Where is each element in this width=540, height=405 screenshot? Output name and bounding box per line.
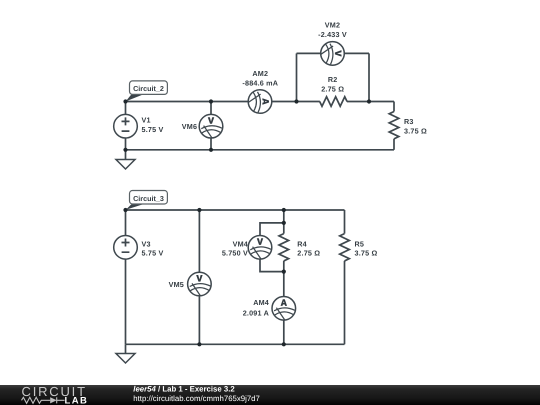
voltage source V1 (114, 114, 164, 138)
junction at VM5 bottom (197, 342, 201, 346)
svg-text:5.750 V: 5.750 V (222, 249, 248, 258)
junction at VM6 top (209, 99, 213, 103)
resistor R2 (320, 75, 347, 106)
junction at R2 right (367, 99, 371, 103)
svg-text:AM2: AM2 (252, 69, 268, 78)
wire: bottom rail of Circuit_3 (126, 343, 345, 345)
wire: bottom rail of Circuit_2 (126, 149, 395, 151)
wire: VM2 left lead up (296, 53, 298, 101)
svg-text:R4: R4 (297, 240, 307, 249)
wire: VM4 parallel loop (260, 223, 284, 272)
svg-text:R5: R5 (355, 240, 365, 249)
wire: top rail of Circuit_2 (right of R2) (347, 101, 394, 103)
wire: R5 bottom lead (344, 261, 346, 344)
wire: top rail of Circuit_2 (left of R2) (126, 101, 320, 103)
junction at V1 top node (123, 99, 127, 103)
svg-text:5.75 V: 5.75 V (142, 125, 164, 134)
svg-text:V1: V1 (142, 116, 151, 125)
svg-text:2.75 Ω: 2.75 Ω (297, 249, 320, 258)
svg-text:Circuit_2: Circuit_2 (133, 84, 164, 93)
wire: VM6 branch (210, 102, 212, 150)
wire: R3 top lead (393, 102, 395, 112)
junction at R4 column top (282, 208, 286, 212)
ammeter AM4 (243, 297, 296, 321)
svg-text:-884.6 mA: -884.6 mA (242, 78, 278, 87)
svg-text:leer54 / Lab 1 - Exercise 3.2: leer54 / Lab 1 - Exercise 3.2 (133, 385, 235, 394)
svg-text:Circuit_3: Circuit_3 (133, 194, 164, 203)
voltmeter VM5 (169, 272, 212, 296)
wire: V3 branch (left rail) (125, 210, 127, 344)
resistor R5 (340, 234, 378, 261)
node label Circuit_2 (126, 81, 168, 101)
svg-text:VM5: VM5 (169, 280, 184, 289)
svg-text:VM6: VM6 (182, 122, 197, 131)
junction at VM4 bottom tap (282, 270, 286, 274)
svg-text:R2: R2 (328, 75, 338, 84)
svg-text:3.75 Ω: 3.75 Ω (404, 127, 427, 136)
wire: top rail of Circuit_3 (126, 209, 345, 211)
resistor R3 (389, 112, 427, 139)
junction at R2 left (294, 99, 298, 103)
ground (Circuit_3) (116, 344, 135, 363)
wire: VM5 branch (198, 210, 200, 344)
svg-text:VM4: VM4 (233, 240, 248, 249)
node label Circuit_3 (126, 191, 168, 210)
junction at VM6 bottom (209, 148, 213, 152)
junction at V1 bottom (123, 148, 127, 152)
junction at VM4 top tap (282, 221, 286, 225)
wire: V1 branch (left rail) (125, 102, 127, 150)
wire: VM2 top rail (297, 52, 370, 54)
svg-text:2.75 Ω: 2.75 Ω (321, 84, 344, 93)
wire: R4 top lead (283, 210, 285, 234)
svg-text:AM4: AM4 (253, 298, 269, 307)
ammeter AM2 (242, 69, 278, 113)
svg-text:-2.433 V: -2.433 V (318, 30, 347, 39)
svg-text:5.75 V: 5.75 V (142, 249, 164, 258)
svg-text:2.091 A: 2.091 A (243, 309, 269, 318)
svg-text:V3: V3 (142, 240, 151, 249)
wire: R4 bottom lead to AM4 and bottom rail (283, 261, 285, 344)
voltmeter VM2 (318, 20, 347, 65)
resistor R4 (279, 234, 320, 261)
junction at V3 top node (123, 208, 127, 212)
CircuitLab logo: resistor zigzag (22, 397, 51, 403)
svg-text:VM2: VM2 (325, 20, 340, 29)
voltage source V3 (114, 236, 164, 260)
svg-text:LAB: LAB (65, 395, 89, 405)
ground (Circuit_2) (116, 150, 135, 169)
CircuitLab logo: diode symbol (50, 397, 64, 403)
wire: R3 bottom lead (393, 139, 395, 150)
voltmeter VM6 (182, 114, 223, 138)
svg-text:http://circuitlab.com/cmmh765x: http://circuitlab.com/cmmh765x9j7d7 (133, 394, 260, 403)
voltmeter VM4 (222, 236, 272, 260)
svg-text:3.75 Ω: 3.75 Ω (355, 249, 378, 258)
wire: VM2 right lead down (368, 53, 370, 101)
svg-text:R3: R3 (404, 117, 414, 126)
wire: R5 top lead (344, 210, 346, 234)
junction at VM5 top (197, 208, 201, 212)
junction at AM4 bottom (282, 342, 286, 346)
footer background bar (0, 385, 540, 405)
